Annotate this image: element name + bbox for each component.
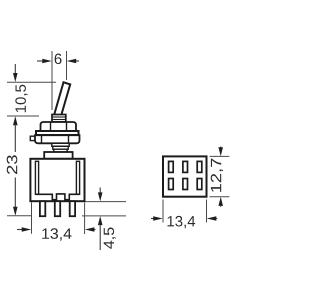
- dimension 10,5: top tail line: [7, 81, 56, 83]
- dimension 4,5: bottom tail line (pin bottom): [82, 215, 126, 217]
- dimension 13,4 bottom view: left arrow: [151, 216, 163, 221]
- dimension 6: extension line left: [51, 51, 53, 110]
- pin 2: [55, 201, 60, 216]
- contact slot row2 col1: [169, 179, 174, 190]
- dimension 13,4 bottom view: extension lines: [162, 200, 164, 223]
- hex nut upper: [41, 122, 77, 131]
- dimension 12,7: arrows: [218, 147, 223, 207]
- dimension 13,4 bottom view: text: [168, 216, 196, 228]
- dimension 10,5: bottom tail line: [7, 115, 39, 117]
- toggle lever: [54, 82, 70, 118]
- dimension 23: text: [7, 155, 18, 174]
- dimension 6: extension line right: [66, 51, 68, 80]
- dimension 13,4 bottom view: right arrow: [207, 216, 218, 221]
- dimension 4,5: top tail line (body bottom): [86, 201, 127, 203]
- body inner bottom contour: [35, 194, 79, 200]
- dimension 10,5: vertical line with down arrow: [13, 64, 18, 82]
- dimension 12,7: bottom tail: [210, 196, 230, 198]
- pin 3: [70, 201, 75, 216]
- dimension 12,7: top tail: [210, 155, 230, 157]
- contact slot row1 col2: [183, 161, 188, 172]
- dimension 13,4 left view: right arrow: [85, 227, 96, 232]
- body left slot: [35, 161, 38, 194]
- dimension 6: text: [55, 54, 62, 65]
- dimension 12,7: text: [211, 159, 223, 192]
- lock washer tab: [30, 136, 36, 140]
- pin 1: [40, 201, 45, 216]
- dimension 6: right arrow and tail: [67, 59, 79, 64]
- dimension 4,5: text: [104, 228, 116, 249]
- contact slot row1 col3: [197, 161, 202, 172]
- body top step plate: [44, 152, 72, 159]
- dimension 23: bottom tail line: [7, 215, 32, 217]
- lever ferrule: [52, 115, 66, 122]
- contact slot row2 col3: [197, 179, 202, 190]
- washer plate: [36, 131, 79, 135]
- hex nut lower: [35, 135, 80, 143]
- dimension 13,4 left view: text: [42, 228, 71, 240]
- bushing neck: [52, 143, 69, 152]
- switch body outline: [30, 159, 84, 201]
- contact slot row1 col1: [169, 161, 174, 172]
- dimension 23: vertical line segments and arrows: [13, 116, 18, 216]
- dimension 10,5: text: [15, 85, 27, 113]
- body right slot: [76, 161, 79, 194]
- dimension 4,5: arrows: [98, 188, 103, 251]
- dimension 13,4 left view: left arrow: [17, 227, 31, 232]
- contact slot row2 col2: [183, 179, 188, 190]
- dimension 6: left arrow and tail: [37, 59, 52, 64]
- bottom view square: [163, 156, 207, 196]
- dimension 13,4 left view: extension lines: [31, 203, 33, 234]
